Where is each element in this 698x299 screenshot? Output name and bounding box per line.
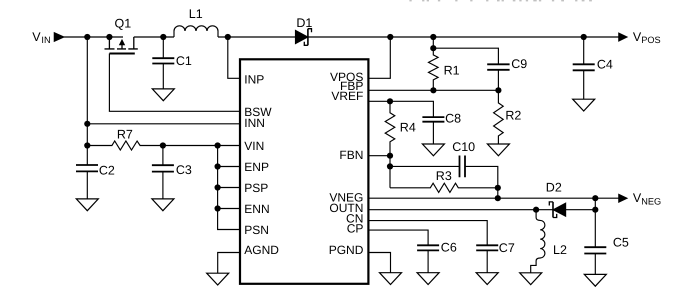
IC U1 body — [240, 59, 368, 283]
label C6 — [441, 241, 457, 255]
svg-text:ENN: ENN — [244, 202, 269, 216]
node: ENN junction — [215, 205, 221, 211]
capacitor C4 — [573, 37, 595, 99]
ground (AGND) — [207, 273, 229, 285]
node: C9/R2 on FBP — [495, 87, 501, 93]
wire: FBP pin — [368, 89, 498, 91]
label R7 — [117, 127, 133, 141]
VPOS output arrow — [619, 33, 627, 41]
node: VIN/C2 junction — [84, 142, 90, 148]
wire: EN chain vertical to PSN pin — [218, 146, 240, 230]
node: EN chain top — [215, 142, 221, 148]
cropped text marks at top — [409, 0, 591, 1]
svg-text:D1: D1 — [296, 16, 312, 30]
wire: OUTN pin to D2 and C5 — [368, 209, 595, 211]
node: R4 bottom on FBN — [387, 153, 393, 159]
node: rail tap to C2/INN/VIN — [84, 34, 90, 40]
node: INN junction — [84, 121, 90, 127]
inductor L1 — [174, 26, 218, 37]
node: D2 anode / C5 on OUTN — [592, 207, 598, 213]
svg-text:CP: CP — [347, 222, 364, 236]
wire: C10 branch right down to R3 level — [465, 166, 498, 187]
capacitor C3 — [152, 146, 174, 199]
ground (C7) — [476, 273, 498, 285]
svg-text:L2: L2 — [553, 243, 567, 257]
svg-text:PSP: PSP — [244, 181, 268, 195]
resistor R2 — [494, 90, 504, 144]
node: INP tap on rail — [225, 34, 231, 40]
label D2 — [546, 181, 562, 195]
node: R4 top on VREF — [387, 98, 393, 104]
node: VPOS tap on rail — [387, 34, 393, 40]
svg-text:V: V — [32, 30, 41, 44]
ground (R2) — [487, 144, 509, 156]
ground (PGND) — [380, 273, 402, 285]
label R3 — [436, 169, 452, 183]
wire: Q1 drain to L1 — [134, 36, 174, 38]
wire: AGND pin — [218, 253, 240, 274]
ground (C2) — [76, 199, 98, 211]
capacitor C7 — [476, 245, 498, 272]
node: Q1 source on rail — [106, 34, 112, 40]
wire: PSP pin — [218, 187, 240, 189]
svg-text:R2: R2 — [505, 109, 521, 123]
svg-text:PSN: PSN — [244, 223, 269, 237]
capacitor C8 — [422, 117, 444, 144]
wire: rail tap down to INP pin — [228, 37, 240, 78]
label D1 — [296, 16, 312, 30]
capacitor C10 — [460, 156, 466, 178]
label C7 — [499, 241, 515, 255]
capacitor C6 — [417, 245, 439, 272]
ground (L2) — [520, 273, 542, 285]
wire: ENP pin — [218, 166, 240, 168]
svg-text:INN: INN — [244, 116, 265, 130]
label R1 — [444, 63, 460, 77]
wire: CN pin to C7 — [368, 221, 487, 246]
svg-text:C2: C2 — [99, 164, 115, 178]
svg-text:VREF: VREF — [331, 89, 363, 103]
wire: CP pin to C6 — [368, 230, 428, 245]
svg-text:C9: C9 — [511, 57, 527, 71]
wire: L1 to D1 anode — [218, 36, 296, 38]
svg-text:R7: R7 — [117, 127, 133, 141]
svg-text:INP: INP — [244, 73, 264, 87]
capacitor C5 — [584, 198, 606, 274]
label C4 — [597, 58, 613, 72]
ground (C1) — [152, 89, 174, 101]
wire: Q1 gate to BSW pin — [109, 54, 240, 112]
ground (C8) — [422, 144, 444, 156]
resistor R7 on VIN wire — [87, 141, 240, 150]
capacitor C1 — [152, 37, 174, 89]
node: C3 on VIN wire — [160, 142, 166, 148]
node: L2 on OUTN — [533, 207, 539, 213]
label C5 — [613, 235, 629, 249]
inductor L2 — [531, 210, 545, 273]
label R2 — [505, 109, 521, 123]
capacitor C2 — [76, 165, 98, 199]
resistor R4 — [385, 101, 395, 155]
input arrow VIN — [54, 33, 64, 41]
node: R1 top on rail — [430, 34, 436, 40]
wire: FBN down to R3/C10 branches — [389, 156, 391, 188]
label C3 — [176, 163, 192, 177]
svg-text:AGND: AGND — [244, 243, 279, 257]
node: C5 tap on VNEG — [592, 195, 598, 201]
svg-text:C10: C10 — [452, 140, 475, 154]
node: C1 on rail — [160, 34, 166, 40]
node: R3/C10 right — [495, 185, 501, 191]
wire: VIN rail from input arrow to Q1 — [64, 36, 123, 38]
svg-text:VIN: VIN — [244, 139, 264, 153]
svg-text:C1: C1 — [176, 54, 192, 68]
ground (C3) — [152, 199, 174, 211]
label C1 — [176, 54, 192, 68]
wire: VREF pin to C8 — [368, 101, 433, 117]
node: PSP junction — [215, 184, 221, 190]
wire: INN pin — [87, 123, 240, 125]
ground (C5) — [584, 274, 606, 286]
node: R1/C9 branch — [430, 45, 436, 51]
svg-text:PGND: PGND — [329, 243, 364, 257]
wire: C10 branch left — [390, 165, 460, 167]
svg-text:R1: R1 — [444, 63, 460, 77]
IC pin labels right — [329, 70, 364, 257]
label VPOS out — [633, 30, 661, 45]
resistor R1 — [429, 37, 439, 90]
wire: PGND pin to ground — [368, 253, 390, 273]
transistor Q1 — [105, 37, 138, 54]
wire: D1 cathode to VPOS arrow — [308, 36, 619, 38]
node: R1 bottom on FBP — [430, 87, 436, 93]
svg-text:C4: C4 — [597, 58, 613, 72]
wire: ENN pin — [218, 208, 240, 210]
diode D2 — [549, 202, 565, 218]
label R4 — [400, 121, 416, 135]
svg-text:C7: C7 — [499, 241, 515, 255]
svg-text:POS: POS — [641, 35, 660, 45]
node: ENP junction — [215, 163, 221, 169]
svg-text:FBN: FBN — [339, 148, 363, 162]
wire: VPOS pin up to rail — [368, 37, 390, 78]
svg-text:C5: C5 — [613, 235, 629, 249]
ground (C6) — [417, 273, 439, 285]
ground (C4) — [573, 99, 595, 111]
svg-text:C6: C6 — [441, 241, 457, 255]
VNEG output arrow — [619, 194, 627, 202]
svg-text:C8: C8 — [445, 112, 461, 126]
svg-text:IN: IN — [41, 35, 50, 45]
wire: VNEG pin to output arrow — [368, 197, 618, 199]
label C9 — [511, 57, 527, 71]
label VNEG out — [633, 191, 661, 206]
svg-text:NEG: NEG — [641, 196, 661, 206]
wire: FBN pin — [368, 155, 390, 157]
svg-text:L1: L1 — [189, 7, 203, 21]
label L1 — [189, 7, 203, 21]
node: C4 on rail — [581, 34, 587, 40]
label L2 — [553, 243, 567, 257]
node: C10 branch left — [387, 163, 393, 169]
label C10 — [452, 140, 475, 154]
wire: R3/C10 right end down to VNEG net — [497, 188, 499, 198]
capacitor C9 — [487, 64, 509, 90]
IC pin labels left — [244, 73, 279, 258]
label C8 — [445, 112, 461, 126]
svg-text:Q1: Q1 — [115, 17, 132, 31]
label VIN — [32, 30, 50, 45]
resistor R3 — [390, 183, 498, 192]
svg-text:R4: R4 — [400, 121, 416, 135]
svg-text:ENP: ENP — [244, 160, 269, 174]
wire: input rail tap down to INN/VIN/C2 — [86, 37, 88, 165]
svg-text:C3: C3 — [176, 163, 192, 177]
label C2 — [99, 164, 115, 178]
svg-text:R3: R3 — [436, 169, 452, 183]
wire: R1 top to C9 top — [433, 48, 498, 64]
diode D1 — [296, 29, 312, 46]
node: R3 net on VNEG — [495, 195, 501, 201]
svg-text:D2: D2 — [546, 181, 562, 195]
label Q1 — [115, 17, 132, 31]
